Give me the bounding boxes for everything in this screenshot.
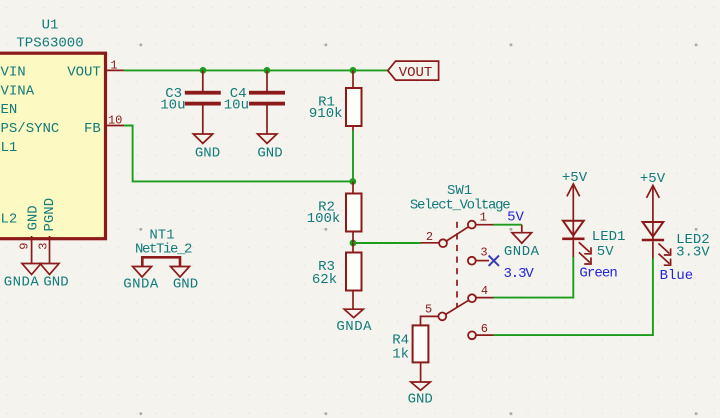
capacitor C3 <box>160 70 221 133</box>
SW1 pin 2 (pole A) <box>421 242 439 244</box>
svg-text:1: 1 <box>480 211 487 225</box>
wire FB net <box>124 126 353 182</box>
svg-text:GND: GND <box>173 277 198 293</box>
U1 pin 1 VOUT <box>106 58 125 72</box>
wire SW1 pin6 to LED2 <box>494 258 653 335</box>
junction at R2/R3 <box>350 240 357 247</box>
wire R1 bottom to junction <box>352 130 354 182</box>
svg-text:GND: GND <box>195 146 220 162</box>
svg-text:6: 6 <box>481 322 488 336</box>
ground GNDA under U1 pin 9 <box>4 264 41 291</box>
wire junction to SW1 pin 2 <box>353 242 421 244</box>
power +5V above LED2 <box>640 171 666 240</box>
ground GNDA under NT1 left <box>123 267 159 293</box>
resistor R1 <box>309 70 362 131</box>
svg-text:5: 5 <box>425 302 432 316</box>
svg-text:Select_Voltage: Select_Voltage <box>410 198 510 214</box>
ground GND under C4 <box>257 134 282 162</box>
resistor R3 <box>312 243 362 309</box>
SW1 pin 4 <box>468 294 476 302</box>
resistor R2 <box>307 182 362 244</box>
svg-text:910k: 910k <box>309 106 343 122</box>
switch SW1 Select_Voltage <box>410 183 510 339</box>
svg-text:GNDA: GNDA <box>336 319 372 335</box>
svg-text:GND: GND <box>408 391 433 407</box>
svg-text:GND: GND <box>43 275 68 291</box>
svg-text:4: 4 <box>481 284 488 298</box>
svg-text:VOUT: VOUT <box>67 65 101 81</box>
ground GND under NT1 right <box>171 267 199 293</box>
power GNDA right of SW1 pin 1 <box>504 225 540 260</box>
svg-text:3: 3 <box>480 246 487 260</box>
svg-text:FB: FB <box>84 121 101 137</box>
svg-text:3.3V: 3.3V <box>503 266 534 282</box>
no-connect X on SW1 pin 3 <box>489 256 499 266</box>
svg-text:L2: L2 <box>1 211 18 227</box>
SW1 mechanical link (dashed) <box>456 222 458 308</box>
svg-text:GND: GND <box>257 146 282 162</box>
svg-text:5V: 5V <box>507 210 524 226</box>
ground GND under R4 <box>408 382 433 407</box>
junction at C4 <box>264 67 271 74</box>
svg-text:9: 9 <box>17 243 31 250</box>
SW1 arm B <box>445 300 469 315</box>
svg-text:Green: Green <box>579 266 617 282</box>
svg-text:GNDA: GNDA <box>123 277 159 293</box>
SW1 pin 1 <box>468 221 476 229</box>
svg-text:GND: GND <box>26 205 42 230</box>
power +5V above LED1 <box>562 170 588 239</box>
ground GNDA under R3 <box>336 309 372 335</box>
svg-text:10u: 10u <box>160 98 185 114</box>
ground GND under C3 <box>193 134 220 162</box>
U1 pin 10 FB <box>106 113 125 127</box>
svg-text:2: 2 <box>426 230 433 244</box>
svg-text:TPS63000: TPS63000 <box>16 36 83 52</box>
wire VOUT net horizontal <box>124 69 389 71</box>
svg-text:EN: EN <box>1 102 18 118</box>
IC U1 TPS63000 <box>0 18 106 239</box>
svg-text:+5V: +5V <box>562 170 588 186</box>
svg-text:3: 3 <box>37 243 51 250</box>
svg-text:VIN: VIN <box>1 65 26 81</box>
svg-text:GNDA: GNDA <box>504 244 540 260</box>
svg-text:U1: U1 <box>42 18 59 34</box>
SW1 pin 6 <box>468 331 476 339</box>
wire SW1 pin4 to LED1 <box>494 257 574 298</box>
svg-text:5V: 5V <box>597 244 614 260</box>
ground GND under U1 pin 3 <box>40 264 69 291</box>
svg-text:L1: L1 <box>1 140 18 156</box>
svg-text:3.3V: 3.3V <box>676 244 710 260</box>
resistor R4 <box>392 325 428 382</box>
svg-text:PS/SYNC: PS/SYNC <box>1 121 60 137</box>
wire SW1 pin5 to R4 <box>421 316 439 325</box>
svg-text:Blue: Blue <box>660 268 694 284</box>
SW1 arm A <box>446 226 469 241</box>
svg-text:NetTie_2: NetTie_2 <box>135 242 192 258</box>
svg-text:100k: 100k <box>307 211 341 227</box>
svg-text:LED1: LED1 <box>592 229 626 245</box>
U1 pin 3 PGND <box>37 236 51 263</box>
junction at R1 top <box>350 67 357 74</box>
svg-text:1k: 1k <box>392 346 409 362</box>
junction at C3 <box>200 67 207 74</box>
junction at R1 bottom / R2 top <box>349 178 356 185</box>
svg-text:10u: 10u <box>224 98 249 114</box>
LED LED2 <box>642 222 711 265</box>
capacitor C4 <box>224 70 285 133</box>
SW1 pin 5 (pole B) <box>438 313 446 321</box>
global label VOUT <box>388 61 439 81</box>
svg-text:10: 10 <box>108 113 122 127</box>
LED LED1 <box>562 221 625 264</box>
SW1 pin 3 <box>468 257 476 265</box>
svg-text:VINA: VINA <box>1 83 35 99</box>
wire SW1 pin1 to GNDA <box>494 224 522 226</box>
U1 pin 9 GND <box>17 236 31 263</box>
svg-text:VOUT: VOUT <box>399 65 433 81</box>
net tie NT1 NetTie_2 <box>135 227 192 266</box>
svg-text:62k: 62k <box>312 272 337 288</box>
svg-text:SW1: SW1 <box>447 183 472 199</box>
svg-text:1: 1 <box>110 58 117 72</box>
svg-text:PGND: PGND <box>42 198 58 232</box>
svg-text:GNDA: GNDA <box>4 275 40 291</box>
